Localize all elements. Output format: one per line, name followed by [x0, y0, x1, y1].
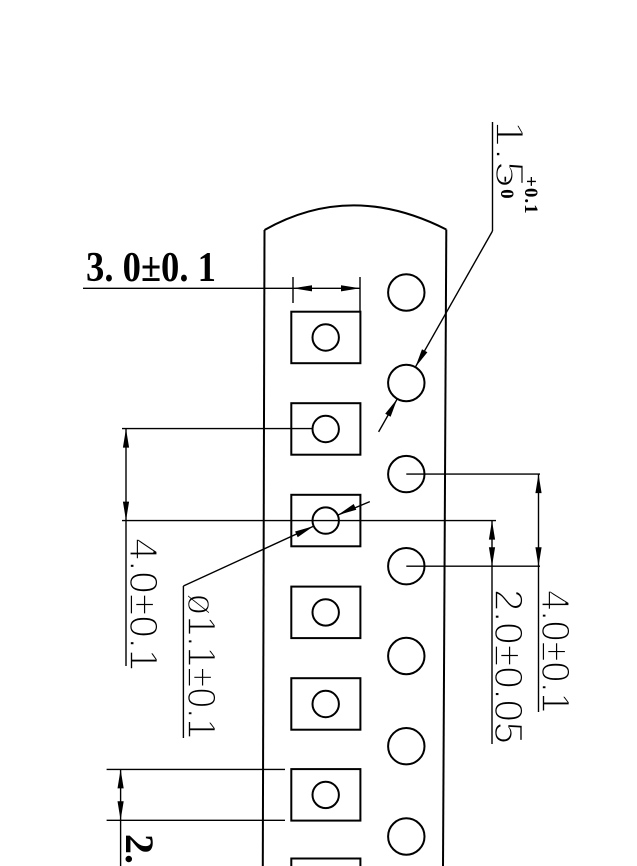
- arrow dim 2.0-right up: [489, 521, 495, 540]
- svg-text:2. 2: 2. 2: [117, 834, 162, 866]
- leader 1.5 lower segment: [379, 399, 398, 432]
- pocket hole P2: [313, 416, 339, 442]
- pocket P2: [291, 403, 360, 455]
- dim 2.x-bottom dimension line and text underline: [120, 769, 122, 866]
- arrow dim 4.0-right up: [535, 474, 541, 493]
- tape left edge: [263, 230, 265, 866]
- sprocket hole S3: [388, 456, 424, 492]
- arrow dim 2.x-bottom up: [118, 769, 124, 788]
- sprocket hole S5: [388, 638, 424, 674]
- svg-text:4.0±0.1: 4.0±0.1: [121, 538, 165, 671]
- pocket P4: [291, 587, 360, 639]
- tape top arc: [265, 205, 447, 230]
- svg-text:3. 0±0. 1: 3. 0±0. 1: [86, 245, 216, 291]
- pocket P7 partial: [291, 859, 360, 866]
- dim 4.0-right dimension line and text underline: [538, 474, 540, 712]
- pocket hole P3: [313, 507, 339, 533]
- dim 3.0 extension tick left: [292, 277, 294, 303]
- sprocket hole S2: [388, 365, 424, 401]
- leader 1.5 underline vertical: [492, 122, 494, 231]
- leader o1.1 upper segment: [338, 502, 370, 515]
- arrow dim 4.0-right down: [535, 547, 541, 566]
- arrow leader 1.5 lower: [385, 399, 397, 417]
- arrow leader o1.1 upper: [338, 504, 357, 515]
- svg-text:- 0: - 0: [496, 176, 517, 200]
- tape right edge: [443, 230, 446, 866]
- dim 4.0-left dimension line and text underline: [125, 429, 127, 666]
- sprocket hole S4: [388, 548, 424, 584]
- svg-text:+0.1: +0.1: [520, 176, 541, 215]
- sprocket hole S6: [388, 728, 424, 764]
- pocket hole P6: [313, 782, 339, 808]
- pocket P6: [291, 769, 360, 821]
- dim 2.x-bottom extension line upper: [107, 768, 285, 770]
- svg-text:2.0±0.05: 2.0±0.05: [486, 589, 530, 744]
- dim 3.0 dimension line: [83, 287, 360, 289]
- pocket hole P5: [313, 691, 339, 717]
- leader o1.1 underline vertical: [182, 586, 184, 738]
- sprocket hole S1: [388, 274, 424, 310]
- arrow dim 2.x-bottom down: [118, 801, 124, 820]
- arrow dim 3.0 right: [341, 285, 360, 291]
- dim 2.0-right dimension line and text underline: [491, 521, 493, 744]
- pocket hole P4: [313, 599, 339, 625]
- dim 3.0 extension tick right: [359, 277, 361, 311]
- arrow dim 4.0-left up: [123, 429, 129, 448]
- sprocket hole S4 centre extension line: [406, 565, 540, 567]
- pocket P5: [291, 678, 360, 730]
- arrow leader o1.1 lower: [295, 526, 314, 537]
- dim 2.x-bottom extension line lower: [107, 819, 285, 821]
- pocket hole P1: [313, 324, 339, 350]
- svg-text:4.0±0.1: 4.0±0.1: [533, 590, 577, 713]
- leader 1.5 diagonal: [415, 231, 492, 367]
- leader o1.1 diagonal: [183, 526, 313, 586]
- sprocket hole S3 centre extension line: [406, 473, 540, 475]
- sprocket hole S7: [388, 818, 424, 854]
- dim 4.0-left extension line upper: [122, 428, 313, 430]
- arrow dim 2.0-right down: [489, 547, 495, 566]
- arrow dim 4.0-left down: [123, 502, 129, 521]
- pocket P3: [291, 495, 360, 547]
- pocket P1: [291, 312, 360, 364]
- pocket row centre line / dim 2.0 extension: [122, 520, 496, 522]
- svg-text:ø1.1±0.1: ø1.1±0.1: [179, 593, 223, 739]
- arrow dim 3.0 left: [293, 285, 312, 291]
- arrow leader 1.5 upper: [415, 349, 427, 367]
